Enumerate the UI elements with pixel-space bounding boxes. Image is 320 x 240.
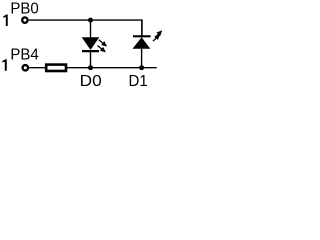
wire from PB4 to resistor	[29, 67, 45, 69]
node junction dot top of D0	[88, 18, 93, 23]
LED D1 triangle (anode bottom, pointing up)	[133, 37, 151, 49]
LED D0 light arrow 2	[98, 46, 105, 52]
wire D1 cathode stub	[141, 20, 143, 36]
resistor R1	[46, 65, 66, 71]
terminal PB4	[23, 65, 28, 70]
LED D0 cathode bar	[82, 50, 99, 52]
pin number 1 of PB4	[2, 59, 6, 71]
terminal PB0	[22, 17, 27, 22]
wire D1 anode stub	[141, 49, 143, 68]
pin number 1 of PB0	[3, 15, 7, 27]
wire bottom rail from resistor to right stub	[67, 67, 157, 69]
svg-text:PB4: PB4	[10, 46, 38, 63]
wire D0 cathode stub	[90, 51, 92, 67]
LED D1 light arrow 1	[155, 31, 161, 37]
node junction dot bottom of D1	[139, 65, 144, 70]
wire D0 anode stub	[90, 20, 92, 37]
LED D1 light arrow 2	[153, 35, 159, 41]
svg-text:PB0: PB0	[10, 1, 38, 18]
LED D0 light arrow 1	[99, 40, 106, 46]
wire top rail from PB0 to D1 corner	[29, 20, 142, 35]
node junction dot bottom of D0	[88, 65, 93, 70]
LED D0 triangle (anode top, pointing down)	[82, 37, 100, 50]
svg-text:D0: D0	[80, 73, 102, 86]
LED D1 cathode bar	[133, 35, 151, 37]
svg-text:D1: D1	[129, 73, 148, 86]
